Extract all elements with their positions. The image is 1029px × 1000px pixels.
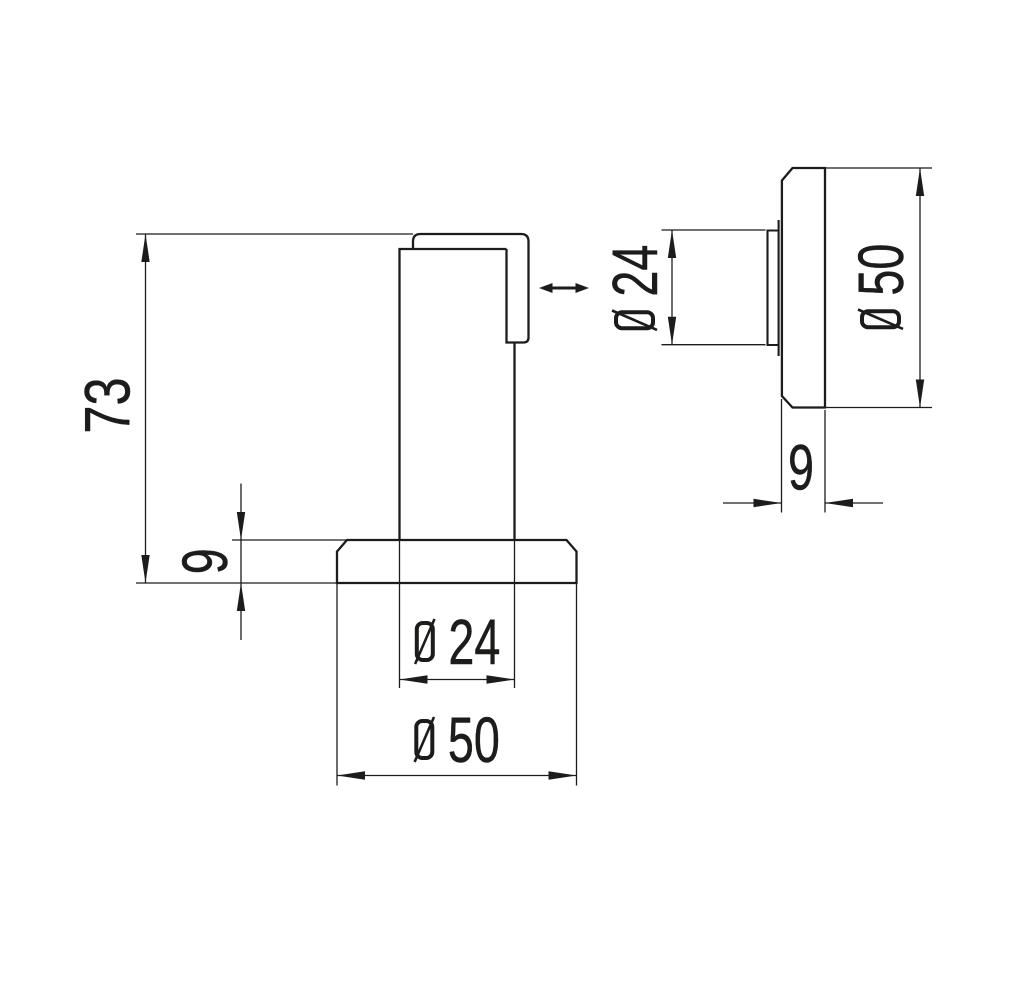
right view: flange body [782, 168, 825, 408]
dimension line 73 [141, 234, 149, 583]
extension lines diameter 50 (right view) [825, 168, 932, 408]
left view: flange base [337, 540, 577, 583]
left view: rubber hook cap [413, 234, 529, 343]
svg-text:24: 24 [599, 245, 671, 297]
extension lines 9 (right view) [782, 399, 826, 513]
svg-text:9: 9 [169, 548, 241, 574]
svg-text:50: 50 [845, 244, 917, 296]
label 9 (left) [169, 548, 241, 574]
dimension line 9 (right view) [723, 499, 883, 507]
svg-text:50: 50 [448, 704, 500, 776]
dimension line diameter 24 (bottom) [400, 675, 515, 683]
double-headed arrow between views [539, 283, 589, 293]
right view: ring step [778, 220, 780, 356]
right view: post stub cap [768, 231, 779, 346]
label diameter 50 (bottom) [415, 704, 500, 776]
svg-text:73: 73 [73, 377, 144, 433]
extension lines diameter 50 (bottom) [337, 583, 577, 786]
dimension line diameter 50 (bottom) [337, 771, 577, 779]
extension lines diameter 24 (bottom) [400, 540, 515, 688]
svg-text:9: 9 [788, 431, 814, 503]
extension line top (73) [136, 233, 413, 235]
label 73 [73, 377, 144, 433]
extension line bottom (73/9) [136, 582, 337, 584]
extension line 9 top [232, 539, 347, 541]
dimension line diameter 50 (right view) [916, 168, 924, 408]
dimension line diameter 24 (right view) [668, 230, 676, 345]
dimension line 9 (left) [237, 484, 245, 641]
left view: post outline [400, 249, 515, 540]
label 9 (right view) [788, 431, 814, 503]
label diameter 50 (right view) [845, 244, 917, 329]
label diameter 24 (bottom) [415, 606, 500, 678]
extension lines diameter 24 (right view) [662, 230, 766, 345]
svg-text:24: 24 [448, 606, 500, 678]
label diameter 24 (right view) [599, 245, 671, 330]
